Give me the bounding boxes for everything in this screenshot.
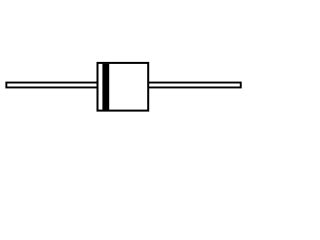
right lead (cathode wire) — [148, 83, 241, 88]
diode body outline — [98, 63, 149, 111]
left lead (anode wire) — [6, 83, 98, 88]
cathode band — [102, 64, 109, 110]
diode package drawing D1 — [0, 0, 250, 167]
